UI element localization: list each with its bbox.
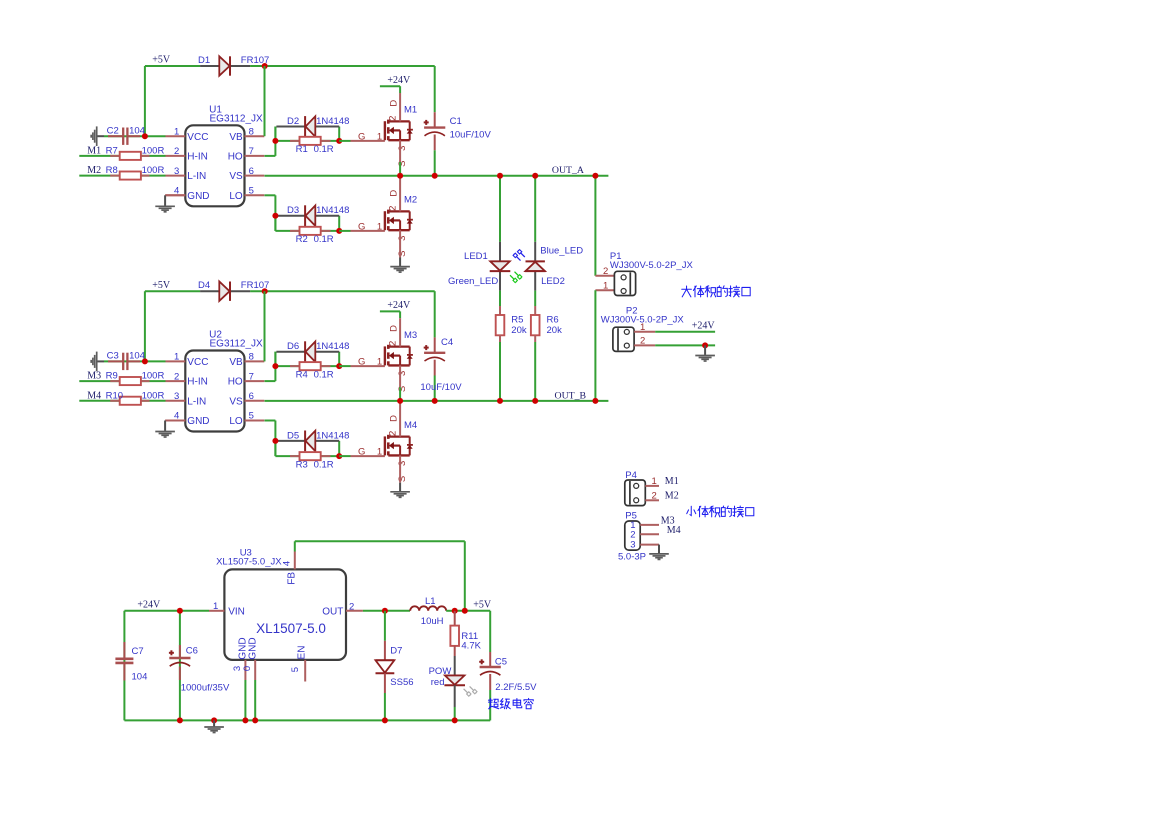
svg-text:1N4148: 1N4148: [316, 116, 349, 127]
svg-text:R1: R1: [296, 144, 308, 155]
svg-text:D: D: [389, 100, 400, 107]
svg-text:20k: 20k: [547, 325, 563, 336]
svg-text:+24V: +24V: [692, 320, 716, 331]
svg-text:1: 1: [652, 476, 657, 487]
svg-text:10uF/10V: 10uF/10V: [450, 129, 492, 140]
svg-text:2: 2: [603, 266, 608, 277]
svg-text:EN: EN: [296, 646, 307, 660]
svg-text:GND: GND: [187, 416, 209, 427]
svg-text:5: 5: [249, 411, 254, 422]
svg-text:3: 3: [174, 166, 179, 177]
svg-text:G: G: [358, 222, 365, 233]
svg-text:XL1507-5.0_JX: XL1507-5.0_JX: [216, 556, 282, 567]
svg-text:100R: 100R: [142, 146, 165, 157]
svg-text:1: 1: [377, 222, 382, 233]
svg-text:5: 5: [290, 667, 301, 672]
svg-text:2: 2: [349, 601, 354, 612]
svg-text:EG3112_JX: EG3112_JX: [210, 339, 264, 350]
svg-text:2: 2: [174, 146, 179, 157]
svg-text:10uH: 10uH: [421, 616, 444, 627]
svg-text:HO: HO: [228, 377, 243, 388]
svg-text:+5V: +5V: [152, 280, 171, 291]
svg-text:LED1: LED1: [464, 251, 488, 262]
svg-text:C4: C4: [441, 337, 453, 348]
svg-text:1: 1: [640, 322, 645, 333]
svg-text:M2: M2: [404, 195, 417, 206]
svg-text:100R: 100R: [142, 390, 165, 401]
svg-text:2: 2: [174, 371, 179, 382]
svg-text:G: G: [358, 132, 365, 143]
svg-text:G: G: [358, 447, 365, 458]
svg-text:M1: M1: [404, 105, 417, 116]
svg-text:M1: M1: [665, 476, 679, 487]
svg-text:104: 104: [132, 671, 148, 682]
svg-text:3: 3: [630, 540, 635, 551]
svg-text:2.2F/5.5V: 2.2F/5.5V: [495, 682, 537, 693]
svg-text:G: G: [358, 357, 365, 368]
svg-text:+5V: +5V: [152, 55, 171, 66]
svg-text:R7: R7: [106, 146, 118, 157]
svg-text:M4: M4: [667, 525, 681, 536]
svg-text:L-IN: L-IN: [187, 396, 206, 407]
svg-text:4: 4: [282, 561, 293, 566]
svg-text:6: 6: [249, 391, 254, 402]
svg-text:C5: C5: [495, 656, 507, 667]
svg-text:4.7K: 4.7K: [461, 641, 481, 652]
svg-text:7: 7: [249, 146, 254, 157]
svg-text:R4: R4: [296, 369, 308, 380]
svg-text:+24V: +24V: [387, 300, 411, 311]
svg-text:P4: P4: [625, 470, 637, 481]
svg-text:20k: 20k: [511, 325, 527, 336]
svg-text:0.1R: 0.1R: [314, 459, 334, 470]
svg-text:2: 2: [652, 490, 657, 501]
svg-text:M4: M4: [404, 420, 417, 431]
svg-text:5: 5: [249, 186, 254, 197]
svg-text:3: 3: [397, 146, 408, 151]
svg-text:0.1R: 0.1R: [314, 234, 334, 245]
svg-text:VS: VS: [229, 396, 243, 407]
svg-text:VCC: VCC: [187, 132, 208, 143]
svg-text:R5: R5: [511, 314, 523, 325]
svg-text:1: 1: [603, 281, 608, 292]
svg-text:D4: D4: [198, 280, 210, 291]
svg-text:1N4148: 1N4148: [316, 205, 349, 216]
svg-text:D: D: [389, 325, 400, 332]
svg-text:S: S: [397, 251, 408, 257]
svg-text:WJ300V-5.0-2P_JX: WJ300V-5.0-2P_JX: [610, 260, 694, 271]
svg-text:C3: C3: [107, 351, 119, 362]
svg-text:1: 1: [174, 352, 179, 363]
svg-text:3: 3: [397, 371, 408, 376]
svg-text:S: S: [397, 386, 408, 392]
svg-text:7: 7: [249, 371, 254, 382]
svg-text:100R: 100R: [142, 371, 165, 382]
svg-text:2: 2: [387, 341, 398, 346]
svg-text:R2: R2: [296, 234, 308, 245]
svg-text:M4: M4: [87, 390, 101, 401]
svg-text:M1: M1: [87, 146, 101, 157]
svg-text:D1: D1: [198, 55, 210, 66]
svg-text:VIN: VIN: [228, 607, 245, 618]
svg-text:1: 1: [174, 126, 179, 137]
svg-text:2: 2: [640, 336, 645, 347]
svg-text:S: S: [397, 161, 408, 167]
svg-text:M3: M3: [87, 371, 101, 382]
svg-text:2: 2: [387, 206, 398, 211]
svg-text:1: 1: [377, 447, 382, 458]
svg-text:M2: M2: [665, 491, 679, 502]
svg-text:D2: D2: [287, 116, 299, 127]
svg-text:GND: GND: [187, 191, 209, 202]
svg-text:R6: R6: [547, 314, 559, 325]
svg-text:+24V: +24V: [137, 599, 161, 610]
svg-text:10uF/10V: 10uF/10V: [420, 382, 462, 393]
svg-text:1N4148: 1N4148: [316, 341, 349, 352]
svg-text:3: 3: [397, 461, 408, 466]
svg-text:D: D: [389, 415, 400, 422]
svg-text:S: S: [397, 476, 408, 482]
svg-text:H-IN: H-IN: [187, 377, 208, 388]
svg-text:VCC: VCC: [187, 357, 208, 368]
svg-text:EG3112_JX: EG3112_JX: [210, 114, 264, 125]
svg-text:1N4148: 1N4148: [316, 430, 349, 441]
svg-text:1: 1: [377, 357, 382, 368]
svg-text:R10: R10: [106, 390, 123, 401]
svg-text:C1: C1: [450, 116, 462, 127]
svg-text:3: 3: [397, 236, 408, 241]
svg-text:red: red: [431, 677, 445, 688]
svg-text:LO: LO: [229, 191, 243, 202]
svg-text:VS: VS: [229, 171, 243, 182]
svg-text:M3: M3: [404, 330, 417, 341]
svg-text:1000uf/35V: 1000uf/35V: [181, 682, 230, 693]
svg-text:H-IN: H-IN: [187, 152, 208, 163]
svg-text:FB: FB: [287, 572, 298, 585]
svg-text:R3: R3: [296, 459, 308, 470]
svg-text:D7: D7: [390, 645, 402, 656]
svg-text:POW: POW: [429, 666, 452, 677]
svg-text:100R: 100R: [142, 165, 165, 176]
svg-text:VB: VB: [229, 357, 243, 368]
svg-text:OUT: OUT: [322, 607, 343, 618]
svg-text:D: D: [389, 190, 400, 197]
svg-text:LED2: LED2: [541, 276, 565, 287]
svg-text:5.0-3P: 5.0-3P: [618, 551, 646, 562]
svg-text:Green_LED: Green_LED: [448, 276, 498, 287]
svg-text:6: 6: [249, 166, 254, 177]
svg-text:VB: VB: [229, 132, 243, 143]
svg-text:0.1R: 0.1R: [314, 369, 334, 380]
svg-text:L1: L1: [425, 596, 436, 607]
svg-text:GND: GND: [248, 637, 259, 659]
svg-text:M2: M2: [87, 165, 101, 176]
svg-text:3: 3: [174, 391, 179, 402]
svg-text:R9: R9: [106, 371, 118, 382]
svg-text:8: 8: [249, 126, 254, 137]
svg-text:8: 8: [249, 352, 254, 363]
svg-text:1: 1: [377, 132, 382, 143]
svg-text:2: 2: [387, 431, 398, 436]
svg-text:D6: D6: [287, 341, 299, 352]
svg-text:C2: C2: [107, 125, 119, 136]
svg-text:OUT_A: OUT_A: [552, 165, 584, 176]
svg-text:0.1R: 0.1R: [314, 144, 334, 155]
svg-text:+5V: +5V: [473, 599, 492, 610]
svg-text:C6: C6: [186, 646, 198, 657]
svg-text:SS56: SS56: [390, 677, 413, 688]
svg-text:C7: C7: [132, 646, 144, 657]
svg-text:D3: D3: [287, 205, 299, 216]
svg-text:XL1507-5.0: XL1507-5.0: [256, 621, 326, 636]
svg-text:1: 1: [213, 601, 218, 612]
svg-text:HO: HO: [228, 152, 243, 163]
svg-text:L-IN: L-IN: [187, 171, 206, 182]
svg-text:+24V: +24V: [387, 75, 411, 86]
svg-text:D5: D5: [287, 430, 299, 441]
svg-text:LO: LO: [229, 416, 243, 427]
svg-text:Blue_LED: Blue_LED: [540, 246, 583, 257]
svg-text:2: 2: [387, 116, 398, 121]
svg-text:0: 0: [242, 666, 253, 671]
svg-text:OUT_B: OUT_B: [555, 390, 587, 401]
svg-text:P5: P5: [625, 511, 637, 522]
svg-text:R8: R8: [106, 165, 118, 176]
